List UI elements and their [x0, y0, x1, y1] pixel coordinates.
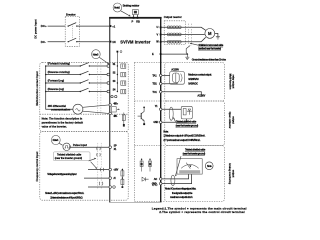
svg-text:2. Y port maximum output: DC48: 2. Y port maximum output: DC48V/50mA. [163, 139, 200, 142]
ground motor [216, 37, 220, 39]
485 source circle [73, 104, 83, 114]
wire shield drop [186, 46, 190, 54]
note callout circle pulse [51, 135, 60, 144]
svg-text:(Reverse running): (Reverse running) [48, 70, 70, 74]
optocoupler S2 [121, 72, 126, 76]
wire resistor leads [134, 15, 138, 18]
svg-text:communication: communication [51, 108, 71, 112]
node earth junction [187, 53, 189, 55]
multi-function contact input box [40, 62, 128, 131]
svg-text:RB: RB [136, 20, 140, 24]
svg-text:5A/30VDC: 5A/30VDC [188, 83, 198, 86]
svg-text:Breaker: Breaker [66, 13, 76, 17]
breaker CB1 mechanical link [72, 24, 74, 40]
wire arrows cable note [89, 158, 96, 161]
svg-text:Maximum contact output:: Maximum contact output: [188, 74, 212, 77]
shield ellipse ao [171, 175, 175, 185]
svg-text:DC+: DC+ [41, 24, 47, 28]
svg-text:Analog monitoring: Analog monitoring [228, 163, 232, 185]
svg-text:Multi-function: Multi-function [228, 74, 232, 90]
wire pulse to X1 [70, 146, 109, 148]
svg-text:Note2: Note2 [114, 7, 120, 10]
note circle meter [205, 162, 213, 170]
note callout circle inputs [92, 50, 101, 59]
svg-text:Twisted shielded cable: Twisted shielded cable [176, 121, 197, 124]
output reactor L1 box [164, 21, 185, 45]
breaker CB1 box [65, 16, 79, 46]
svg-text:U: U [157, 25, 159, 29]
terminal 485- [109, 112, 112, 115]
resistor 485 internal [123, 113, 125, 125]
resistor RB braking [133, 10, 139, 15]
svg-text:(Forward jog): (Forward jog) [48, 79, 65, 83]
terminal P [133, 17, 135, 19]
component AO internal right [149, 159, 151, 172]
terminal AI [109, 177, 112, 180]
svg-text:1. Maximum output of +10V port: 1. Maximum output of +10V port:DC10V/20m… [163, 135, 205, 138]
svg-text:AC250V: AC250V [171, 68, 179, 71]
svg-text:P: P [132, 20, 134, 24]
svg-text:1N: 1N [112, 40, 115, 44]
terminal +1 [110, 25, 112, 27]
terminal 1N [110, 41, 112, 43]
svg-text:2.The symbol ○ represents the: 2.The symbol ○ represents the control ci… [159, 210, 245, 214]
optocoupler S4 [121, 89, 126, 93]
svg-text:2.Internal resistance of AI po: 2.Internal resistance of AI port:500kΩ [50, 196, 82, 199]
svg-text:Ground resistance is less than: Ground resistance is less than 10 ohm [192, 58, 227, 61]
frequency control input box [40, 132, 128, 201]
svg-text:value of the inverter.: value of the inverter. [42, 125, 68, 129]
cable shield marks UVW [187, 24, 189, 46]
svg-text:Pulse input: Pulse input [73, 143, 87, 147]
svg-text:SV/VM Inverter: SV/VM Inverter [120, 39, 151, 44]
component AO internal left [141, 159, 143, 172]
twisted cable note frequency [53, 152, 90, 161]
svg-text:(Forward running): (Forward running) [48, 62, 70, 66]
svg-text:Notes:1.+10V port maximum outp: Notes:1.+10V port maximum output: 50mA. [45, 192, 84, 195]
inductor coil V [167, 33, 170, 36]
wire E to ground node [162, 53, 188, 55]
transistor Q1 internal [143, 107, 145, 109]
inverter U0 top edge [109, 17, 162, 19]
wire TA1 to relay [162, 74, 170, 76]
svg-text:the signal is output, the: the signal is output, the [172, 192, 193, 195]
jumper 485 termination [112, 107, 117, 112]
wire 485+ [83, 105, 109, 107]
optocoupler S3 [121, 81, 126, 85]
wire W phase [162, 37, 206, 42]
terminal RB [137, 17, 139, 19]
open collector output box [165, 101, 225, 146]
terminal 485+ [109, 104, 112, 107]
terminal GND analog [109, 186, 112, 189]
wire U phase [162, 27, 206, 30]
svg-text:AO: AO [154, 178, 157, 181]
svg-text:(Reverse jog): (Reverse jog) [48, 87, 65, 91]
ground earth symbol [185, 54, 189, 60]
optocoupler S1 [121, 64, 126, 68]
wire TB1 to relay [162, 83, 177, 84]
shield arcs analog [100, 168, 104, 171]
svg-text:DC-: DC- [41, 40, 46, 44]
svg-text:Note: The function description: Note: The function description in [42, 117, 83, 121]
svg-text:E: E [152, 52, 154, 56]
breaker CB1 pole A [68, 25, 69, 26]
svg-text:parentheses is the factory def: parentheses is the factory default [42, 121, 84, 125]
analog monitoring output box [165, 146, 225, 202]
svg-text:Open collector: Open collector [228, 112, 232, 129]
load box external [181, 106, 192, 119]
svg-text:Output reactor: Output reactor [164, 15, 182, 19]
svg-text:Twisted shielded cable: Twisted shielded cable [185, 149, 206, 152]
svg-text:Frequency control input: Frequency control input [35, 152, 39, 182]
svg-text:Multi-function contact input: Multi-function contact input [35, 71, 39, 105]
shield arcs pulse [97, 147, 101, 150]
wire arrow to cable [190, 43, 198, 45]
svg-text:3A/240VAC: 3A/240VAC [188, 78, 199, 81]
wire +24V bus [116, 53, 118, 92]
wire Y1 to load [162, 108, 181, 110]
node +24V [117, 51, 119, 53]
svg-text:maximum output is 2mA: maximum output is 2mA [170, 196, 193, 199]
svg-text:Voltage/current type analog in: Voltage/current type analog input [47, 173, 76, 176]
svg-text:GND: GND [152, 183, 157, 186]
diode AO internal [142, 177, 149, 181]
motor M1 [205, 29, 215, 39]
svg-text:Twisted shielded cable: Twisted shielded cable [57, 153, 82, 156]
wire motor earth [215, 33, 218, 36]
svg-text:485-: 485- [113, 115, 117, 118]
resistor AI internal lower [121, 179, 124, 184]
wire TC1 run [162, 92, 201, 95]
resistor AI internal upper [121, 169, 123, 188]
terminal +10V [109, 168, 112, 171]
svg-text:(near the inverter ground): (near the inverter ground) [176, 125, 199, 128]
svg-text:Note:: Note: [163, 130, 168, 133]
svg-text:(near the inverter ground): (near the inverter ground) [55, 157, 82, 160]
wire GND y run [162, 119, 187, 122]
shield ellipse y [169, 107, 173, 120]
inverter U0 bottom edge [109, 201, 161, 204]
svg-text:V: V [157, 32, 159, 36]
svg-text:(earthed near the inverter): (earthed near the inverter) [198, 48, 221, 51]
wire breaker to terminal 1N [79, 41, 109, 43]
wire arrow note to S1 [99, 57, 109, 64]
inductor coil U [167, 26, 170, 29]
wire AI row [84, 177, 109, 179]
svg-text:V: V [190, 164, 192, 168]
wire 485- [83, 111, 109, 113]
wire breaker to terminal +1 [79, 25, 109, 27]
cable marks contact rows [97, 63, 99, 113]
svg-text:Braking resistor: Braking resistor [123, 4, 140, 8]
wire +10V row [88, 169, 109, 171]
svg-text:Note: AO port as voltage type:: Note: AO port as voltage type: Max. [165, 188, 197, 191]
svg-text:output: output [231, 170, 235, 178]
svg-text:Note3: Note3 [93, 53, 99, 56]
wire DC+ to breaker [48, 25, 66, 27]
pulse source circle [63, 143, 70, 150]
inverter U0 left edge [109, 18, 110, 203]
wire AO to meter [162, 174, 189, 179]
svg-text:Shielded or armoured cable: Shielded or armoured cable [198, 44, 224, 47]
svg-text:+10V: +10V [113, 169, 118, 172]
wire GND row [88, 186, 109, 188]
svg-text:AC220V: AC220V [197, 95, 205, 98]
wire V phase [162, 33, 205, 35]
terminal X1 [109, 146, 112, 149]
svg-text:Note4: Note4 [53, 139, 59, 142]
cable marks frequency rows [97, 143, 99, 190]
svg-text:relay output: relay output [232, 75, 236, 89]
wire arrow from note circle to terminal P [121, 11, 131, 16]
breaker CB1 pole B [68, 41, 69, 42]
note callout circle braking [113, 3, 122, 12]
svg-text:output: output [231, 116, 235, 124]
svg-text:(near the inverter ground): (near the inverter ground) [183, 153, 206, 156]
terminal COM pair [111, 95, 113, 97]
relay output box [165, 62, 225, 101]
inductor coil W [167, 40, 170, 43]
svg-text:GND: GND [153, 121, 158, 124]
wire GND to meter [162, 174, 192, 184]
wire arrow note to pulse [59, 143, 62, 145]
inverter U0 right edge [160, 18, 161, 203]
svg-text:485 differential: 485 differential [48, 104, 67, 108]
meter P1 [177, 159, 202, 174]
wire arrow cable note ao [175, 156, 181, 176]
svg-text:M: M [208, 31, 212, 36]
wire input common bus [46, 66, 73, 109]
svg-text:DC power input: DC power input [34, 19, 38, 38]
wire DC- to breaker [48, 41, 66, 43]
